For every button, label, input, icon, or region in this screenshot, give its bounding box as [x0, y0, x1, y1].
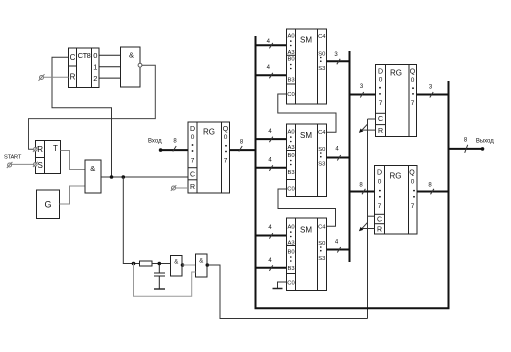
wire clock to CT8 C input: [52, 57, 112, 177]
register RG3 (lower output register): [375, 166, 418, 235]
svg-text:7: 7: [378, 203, 382, 210]
adder SM1: [287, 29, 327, 104]
node at DD5 output: [181, 263, 185, 267]
svg-text:B0: B0: [287, 249, 294, 255]
output bus Выход (8 bit): [449, 148, 483, 150]
svg-text:D: D: [378, 69, 383, 76]
svg-text:R: R: [70, 73, 76, 82]
buffer gate DD5: [171, 256, 183, 277]
wire feedback loop around RC: [134, 264, 196, 297]
svg-text:0: 0: [191, 134, 195, 141]
bus to RG3 D (8 bit): [350, 191, 375, 193]
wire junction down to RC chain: [123, 177, 139, 264]
reset arrow at RG3 R: [361, 228, 375, 230]
svg-text:&: &: [174, 260, 178, 266]
svg-text:RG: RG: [390, 69, 402, 78]
svg-text:Q: Q: [409, 170, 415, 177]
wire START to S input: [12, 163, 34, 165]
svg-text:B0: B0: [287, 57, 294, 63]
svg-text:S3: S3: [318, 66, 325, 72]
svg-text:S0: S0: [318, 241, 325, 247]
svg-text:B3: B3: [287, 78, 294, 84]
wire CT8 out 0 to AND gate: [99, 54, 121, 56]
capacitor C1: [154, 264, 165, 289]
wire T-trigger output to AND gate input: [61, 151, 86, 170]
svg-text:7: 7: [411, 100, 415, 107]
svg-text:C4: C4: [318, 34, 326, 40]
svg-text:0: 0: [411, 77, 415, 84]
svg-text:0: 0: [379, 77, 383, 84]
input marker circle at CT8 R: [40, 76, 44, 80]
adder SM2: [287, 124, 327, 197]
bus to SM1 A (4 bit): [256, 44, 287, 46]
junction node at capacitor top: [158, 262, 162, 266]
wire resistor to buffer 1: [152, 263, 171, 265]
svg-text:C: C: [190, 172, 195, 179]
generator G block: [37, 190, 60, 219]
wire CT8 out 1 to AND gate: [99, 66, 121, 68]
wire to CT8 R input: [44, 76, 69, 78]
main data bus vertical + bottom + right feedback bus: [256, 36, 449, 308]
svg-text:7: 7: [224, 158, 228, 165]
svg-text:B3: B3: [287, 170, 294, 176]
svg-text:Q: Q: [410, 69, 416, 76]
svg-text:C0: C0: [287, 281, 294, 287]
svg-text:RG: RG: [390, 172, 402, 181]
svg-text:S3: S3: [318, 161, 325, 167]
svg-text:Q: Q: [223, 126, 229, 133]
wire to RG1 R input: [176, 187, 189, 189]
wire DD5 output to DD6 input: [183, 264, 196, 266]
svg-text:SM: SM: [300, 36, 312, 45]
svg-text:7: 7: [379, 100, 383, 107]
svg-text:R: R: [378, 128, 383, 135]
bus to RG2 D (3 bit): [350, 94, 376, 96]
svg-text:B3: B3: [287, 266, 294, 272]
bus to SM2 B (4 bit): [256, 167, 287, 169]
bus to SM3 B (4 bit): [256, 267, 287, 269]
junction node clock-to-RC: [122, 175, 126, 179]
svg-text:C0: C0: [287, 92, 294, 98]
node at DD6 output: [206, 263, 210, 267]
ground under capacitor: [154, 288, 165, 290]
bus RG3 Q out (8 bit): [417, 191, 449, 193]
svg-text:A0: A0: [287, 130, 294, 136]
svg-text:&: &: [199, 259, 203, 265]
svg-text:S3: S3: [318, 256, 325, 262]
bus SM2 S out (4 bit): [327, 157, 350, 159]
svg-text:G: G: [44, 200, 51, 210]
output node Выход: [481, 147, 485, 151]
sum bus vertical (to output registers): [349, 51, 351, 262]
svg-text:SM: SM: [300, 225, 312, 234]
junction node clock-to-counter: [110, 175, 114, 179]
wire DD6 output to register clock line: [207, 265, 367, 319]
svg-text:S0: S0: [318, 147, 325, 153]
wire clock to RG2 C: [368, 118, 376, 120]
bus Вход to RG1 (8 bit): [161, 149, 188, 151]
wire CT8 out 2 to AND gate: [99, 77, 121, 79]
svg-text:0: 0: [411, 179, 415, 186]
register RG1 (input register): [188, 122, 230, 193]
svg-text:A3: A3: [287, 240, 294, 246]
wire G output to AND gate input: [60, 186, 86, 204]
bus SM1 S out (3 bit): [327, 60, 350, 62]
svg-text:7: 7: [191, 158, 195, 165]
svg-text:A3: A3: [287, 145, 294, 151]
bus RG2 Q out (3 bit): [417, 94, 449, 96]
svg-text:R: R: [37, 145, 43, 154]
svg-text:B0: B0: [287, 153, 294, 159]
svg-text:1: 1: [93, 63, 97, 72]
clock distribution vertical wire: [367, 119, 369, 319]
wire AND DD4 output to RG1 C input: [101, 176, 188, 178]
svg-text:D: D: [190, 126, 195, 133]
svg-text:C: C: [377, 217, 382, 224]
bus RG1 Q out to data bus (8 bit): [230, 149, 256, 151]
wire carry SM3 C4 to SM2 C0: [278, 189, 336, 226]
junction node at resistor input: [132, 262, 136, 266]
svg-text:START: START: [4, 155, 22, 161]
svg-text:Выход: Выход: [476, 139, 494, 145]
bus to SM1 B (4 bit): [256, 74, 287, 76]
input node Вход: [159, 148, 163, 152]
wire clock to RG3 C: [368, 215, 375, 217]
inversion bubble at AND gate output: [138, 63, 142, 67]
wire carry SM2 C4 to SM1 C0: [278, 94, 336, 132]
reset arrow at RG2 R: [361, 129, 376, 131]
svg-text:C4: C4: [318, 130, 326, 136]
wire AND output feedback loop to T-trigger R input: [29, 65, 156, 149]
svg-text:0: 0: [378, 179, 382, 186]
svg-text:S: S: [38, 161, 43, 170]
svg-text:2: 2: [93, 74, 97, 83]
bus to SM2 A (4 bit): [256, 138, 287, 140]
svg-text:S0: S0: [318, 51, 325, 57]
AND gate DD4 (start gating): [85, 160, 101, 193]
svg-text:0: 0: [224, 134, 228, 141]
input marker circle at RG1 R: [172, 186, 176, 190]
svg-text:SM: SM: [300, 131, 312, 140]
T-trigger DD3: [36, 141, 61, 174]
svg-text:0: 0: [93, 51, 97, 60]
bus SM3 S out (4 bit): [327, 249, 350, 251]
START input source symbol: [8, 163, 12, 167]
svg-text:D: D: [377, 170, 382, 177]
svg-text:A0: A0: [287, 225, 294, 231]
ground at SM3 C0: [278, 282, 287, 288]
svg-text:R: R: [190, 184, 195, 191]
svg-text:RG: RG: [203, 128, 215, 137]
register RG2 (upper output register): [376, 65, 417, 137]
bus to SM3 A (4 bit): [256, 235, 287, 237]
AND gate DD2 (top): [121, 47, 141, 87]
adder SM3: [287, 218, 327, 291]
svg-text:T: T: [53, 144, 58, 153]
input marker circle at S input: [34, 163, 38, 167]
svg-text:C: C: [70, 53, 76, 62]
svg-text:7: 7: [411, 203, 415, 210]
input marker circle at R input: [34, 148, 38, 152]
svg-text:C0: C0: [287, 186, 294, 192]
svg-text:C: C: [378, 116, 383, 123]
svg-text:CT8: CT8: [78, 51, 91, 60]
svg-text:A3: A3: [287, 50, 294, 56]
counter DD1 CT8 block: [69, 48, 100, 88]
svg-text:Вход: Вход: [148, 139, 162, 145]
bus slash: [173, 146, 176, 152]
svg-text:&: &: [90, 164, 95, 173]
svg-text:&: &: [129, 51, 134, 60]
svg-text:A0: A0: [287, 34, 294, 40]
svg-text:R: R: [377, 227, 382, 234]
svg-text:C4: C4: [318, 224, 326, 230]
buffer gate DD6: [196, 254, 208, 277]
resistor R1: [140, 261, 153, 266]
